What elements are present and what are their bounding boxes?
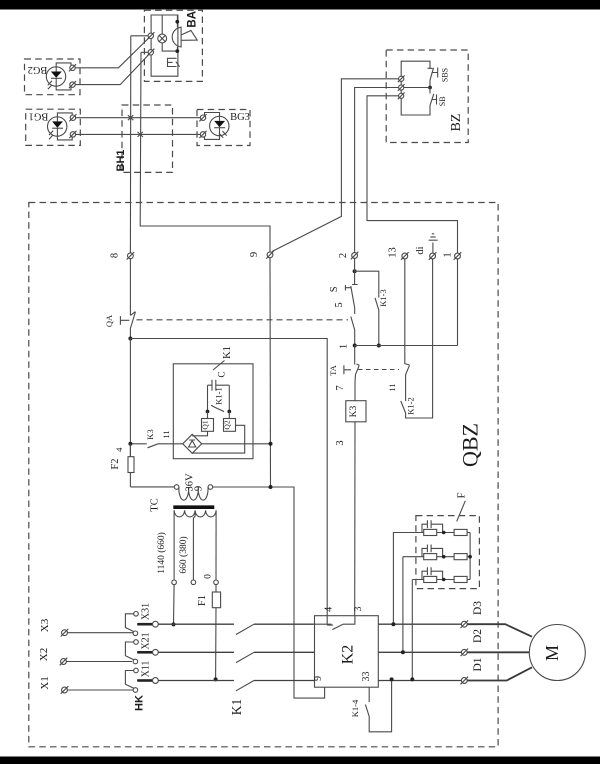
terminal BG3 bottom xyxy=(199,131,206,138)
top black band xyxy=(0,0,600,10)
terminal 8 xyxy=(110,252,135,260)
wire TC right tap to wire9/K2 run xyxy=(213,487,325,698)
RC branch 3 xyxy=(412,567,470,582)
enclosure BH1 (dashed) xyxy=(122,105,173,172)
LED BG2 xyxy=(46,67,65,90)
LED BG1 xyxy=(48,117,67,139)
terminal X1 xyxy=(39,676,68,694)
terminal BG1 bottom xyxy=(69,131,76,138)
wire D3 to motor xyxy=(467,624,532,637)
output row D1 xyxy=(378,680,462,682)
svg-text:BA: BA xyxy=(187,11,199,28)
wire D1 to motor xyxy=(467,667,532,680)
switch HK pole 1 xyxy=(125,603,158,636)
svg-text:HK: HK xyxy=(134,695,146,711)
dashed link TA to K1-2 wire xyxy=(358,369,399,371)
enclosure BG3 (dashed) xyxy=(197,110,250,146)
terminal D3 xyxy=(461,601,485,628)
wire 13 down xyxy=(405,259,410,401)
terminal BZ-3 xyxy=(398,92,405,99)
junction dots K1-1 xyxy=(206,410,210,414)
svg-text:1140 (660): 1140 (660) xyxy=(156,532,167,574)
horn BA symbol xyxy=(172,15,197,51)
svg-text:TC: TC xyxy=(150,498,161,511)
wire BZ-3 to terminal 1 xyxy=(367,96,458,253)
tap 1140(660) xyxy=(156,511,176,585)
svg-text:5: 5 xyxy=(334,302,345,307)
wire X2 to HK xyxy=(66,661,132,663)
transformer TC secondary 36V xyxy=(174,473,212,500)
BZ inner wiring xyxy=(401,61,430,115)
svg-text:33: 33 xyxy=(361,672,372,682)
svg-text:1: 1 xyxy=(339,344,350,349)
terminal X3 xyxy=(39,618,68,636)
thyristor Q2 xyxy=(223,412,236,432)
wire QA junction down to F2 xyxy=(129,339,131,457)
terminal di xyxy=(415,246,436,259)
contact K1-3 branch xyxy=(355,271,388,345)
svg-text:8: 8 xyxy=(110,253,121,258)
svg-text:BG3: BG3 xyxy=(230,112,250,123)
svg-text:K1: K1 xyxy=(222,346,233,359)
F common right bus xyxy=(469,533,471,580)
contactor K1 main contact 3 xyxy=(236,681,254,691)
wire BG1 top to BG3 xyxy=(76,117,203,119)
junction dot wire9 bottom xyxy=(269,485,273,489)
lamp (circle with X) xyxy=(158,15,178,51)
switch HK pole 3 xyxy=(125,661,158,693)
terminal 9 xyxy=(249,251,274,259)
contact K1-2 xyxy=(387,259,433,418)
svg-text:K3: K3 xyxy=(145,429,155,439)
junction x-mark bus A / lamp line 1 xyxy=(128,115,133,120)
svg-text:3: 3 xyxy=(335,440,346,445)
mechanical interlock dashed line QA-S xyxy=(137,319,349,321)
junction dot below QA xyxy=(128,337,132,341)
svg-text:K1: K1 xyxy=(229,699,244,716)
svg-text:X2: X2 xyxy=(38,648,50,661)
junction dot wire9/rectifier xyxy=(269,442,273,446)
fuse F2 xyxy=(110,444,134,487)
junction dot F2 top xyxy=(128,442,132,446)
terminal BA-1 xyxy=(147,32,154,39)
row X21 wire xyxy=(158,651,234,653)
rectifier AC bus (left to F2 dot, right to wire 9) xyxy=(130,443,270,445)
switch S xyxy=(329,258,358,308)
wire D2 to motor xyxy=(467,651,529,653)
terminal D2 xyxy=(461,629,485,656)
enclosure BA (dashed) xyxy=(144,10,202,81)
svg-text:X3: X3 xyxy=(39,618,51,632)
capacitor C xyxy=(208,371,230,390)
ground symbol above di xyxy=(429,234,438,253)
LED BG3 xyxy=(210,116,229,138)
terminal X2 xyxy=(38,648,67,666)
tap 660(380) xyxy=(178,511,196,585)
svg-text:K1-3: K1-3 xyxy=(378,289,388,306)
contactor K1 main contact 1 xyxy=(236,624,254,634)
motor M xyxy=(529,625,585,681)
bottom black band xyxy=(0,757,600,764)
row X31 wire xyxy=(158,623,234,625)
svg-text:11: 11 xyxy=(387,383,397,391)
svg-text:0: 0 xyxy=(204,574,214,579)
thyristor Q1 xyxy=(201,412,214,432)
svg-text:C: C xyxy=(217,371,227,377)
svg-text:7: 7 xyxy=(335,385,346,390)
svg-text:K3: K3 xyxy=(349,405,359,417)
wire BZ-1 to diagonal into terminal 9 xyxy=(272,79,399,252)
junction dots BA xyxy=(175,20,179,24)
terminal BG2 top xyxy=(69,64,76,71)
svg-text:S: S xyxy=(329,286,340,292)
RC branch 2 xyxy=(403,545,470,560)
svg-text:9: 9 xyxy=(194,486,205,491)
BG1 connection loop xyxy=(57,113,72,140)
terminal BZ-1 xyxy=(398,75,405,82)
junction x-mark bus B / lamp line 2 xyxy=(138,132,143,137)
svg-text:QA: QA xyxy=(104,314,114,327)
junction dot BZ xyxy=(428,86,432,90)
svg-text:D3: D3 xyxy=(472,601,484,615)
wire 9 down from terminal xyxy=(269,258,272,487)
label F with leader xyxy=(457,492,468,521)
wire K1 out row3 xyxy=(254,680,315,682)
terminal BG1 top xyxy=(69,114,76,121)
output row D3 xyxy=(378,623,461,625)
button SB (start, NO) xyxy=(430,88,447,108)
junction 1 node xyxy=(353,344,357,348)
svg-text:1: 1 xyxy=(443,252,454,257)
svg-text:X21: X21 xyxy=(141,632,152,649)
svg-text:BG1: BG1 xyxy=(29,111,49,122)
svg-text:SB: SB xyxy=(438,96,447,106)
wire Q1 to rectifier top vertex xyxy=(192,431,207,436)
svg-text:660 (380): 660 (380) xyxy=(178,536,189,573)
wire diagonal BA bottom to BG2 bottom xyxy=(73,54,149,84)
BG3 connection loop xyxy=(205,113,220,140)
contactor K1 main contact 2 xyxy=(236,652,254,662)
transformer TC primary xyxy=(174,510,216,517)
svg-text:K2: K2 xyxy=(340,645,357,665)
tap 0 with fuse F1 xyxy=(197,511,221,680)
svg-text:9: 9 xyxy=(313,676,324,681)
wire X1 to HK xyxy=(67,689,133,691)
BG2 connection loop xyxy=(56,63,71,90)
transformer core xyxy=(173,505,214,509)
enclosure F (dashed) xyxy=(416,516,480,589)
terminal BZ-2 xyxy=(398,84,405,91)
wire Q2 to rectifier bottom vertex xyxy=(192,425,245,453)
svg-text:D2: D2 xyxy=(472,629,484,643)
svg-text:X1: X1 xyxy=(39,676,51,689)
terminal BA-2 xyxy=(147,49,154,56)
wire terminal 8 to QA xyxy=(129,259,131,316)
BA pressure contact (E-shape) xyxy=(168,58,180,66)
RC branch 1 xyxy=(416,520,470,535)
wire K1 out row2 xyxy=(254,651,315,653)
wire BG1 bottom to BG3 xyxy=(76,133,203,135)
button SBS (stop, NC) xyxy=(428,68,450,88)
terminal 1 xyxy=(443,252,462,260)
bridge rectifier diamond xyxy=(183,434,202,453)
output row D2 xyxy=(378,651,461,653)
svg-text:Q1: Q1 xyxy=(201,420,210,429)
svg-text:13: 13 xyxy=(388,247,399,258)
svg-text:M: M xyxy=(542,645,562,661)
wire middle terminal to dot xyxy=(401,87,430,89)
wire node1 to terminal1 drop xyxy=(355,259,458,346)
contact K3 (charging) xyxy=(145,429,171,447)
svg-text:F2: F2 xyxy=(110,458,121,469)
wire diagonal BA top to BG2 top xyxy=(73,38,149,68)
QA-linked contact below S xyxy=(351,308,355,346)
svg-text:di: di xyxy=(415,246,426,254)
svg-text:F1: F1 xyxy=(197,595,208,606)
wire QA to junction xyxy=(129,329,131,339)
wire 1140 tap down to row X31 xyxy=(173,585,176,625)
svg-text:4: 4 xyxy=(324,607,335,612)
terminal BG2 bottom xyxy=(69,81,76,88)
wire bus A (BA top to terminal 8) xyxy=(129,36,131,253)
BA inner wiring loop xyxy=(151,15,178,76)
svg-text:Q2: Q2 xyxy=(223,420,232,429)
svg-text:SBS: SBS xyxy=(441,68,450,82)
wire BA top terminal to vertical bus A xyxy=(131,35,148,37)
svg-text:K1-2: K1-2 xyxy=(406,397,416,414)
svg-text:3: 3 xyxy=(353,607,364,612)
reactor K2 box xyxy=(315,616,379,688)
enclosure K1 (solid) xyxy=(173,364,253,459)
wire 4 run (QA junction to K2 terminal 4) xyxy=(130,339,327,616)
svg-text:BZ: BZ xyxy=(449,114,464,132)
svg-text:TA: TA xyxy=(328,364,338,376)
label K1 with leader xyxy=(213,346,233,370)
svg-text:X31: X31 xyxy=(141,603,152,620)
F branch drops to rows xyxy=(393,533,416,625)
terminal BG3 top xyxy=(199,114,206,121)
wire F2 to TC left tap xyxy=(130,486,174,488)
svg-text:K1-1: K1-1 xyxy=(214,387,224,404)
svg-text:F: F xyxy=(457,492,468,498)
enclosure BZ (dashed) xyxy=(386,50,468,143)
enclosure BG1 (dashed) xyxy=(26,109,81,145)
svg-text:BH1: BH1 xyxy=(115,149,127,171)
switch QA xyxy=(104,312,135,329)
terminal 13 xyxy=(388,247,409,260)
terminal D1 xyxy=(461,657,485,684)
svg-text:D1: D1 xyxy=(472,657,484,671)
wire X3 to HK xyxy=(67,632,133,634)
row X11 wire xyxy=(158,680,234,682)
svg-text:BG2: BG2 xyxy=(28,64,48,75)
wire 7 and K3 coil xyxy=(335,382,366,422)
contact inside K2 top xyxy=(315,616,355,630)
contact K1-4 loop (33 to D1 row) xyxy=(350,679,392,731)
svg-text:X11: X11 xyxy=(141,661,152,678)
enclosure BG2 (dashed) xyxy=(25,59,81,95)
svg-text:9: 9 xyxy=(249,252,260,257)
wire BA bottom terminal to vertical bus B xyxy=(141,51,148,53)
terminal 2 xyxy=(338,252,358,260)
switch HK pole 2 xyxy=(125,632,158,663)
contact K1-1 xyxy=(208,385,230,411)
wire 3 (K3 to K2) xyxy=(354,422,356,616)
svg-text:K1-4: K1-4 xyxy=(350,699,360,717)
svg-text:QBZ: QBZ xyxy=(458,423,483,467)
wire bus B (BA bottom, bends to terminal 9) xyxy=(140,52,270,251)
svg-text:11: 11 xyxy=(161,430,171,438)
wire K1 out row1 xyxy=(254,623,315,625)
junction dot at wire 2 xyxy=(353,269,357,273)
contact TA (overload) xyxy=(328,346,359,383)
svg-text:2: 2 xyxy=(338,253,349,258)
junction dot K1-4/D1 xyxy=(390,677,394,681)
wire BZ-2 down to terminal 2 xyxy=(355,88,399,253)
